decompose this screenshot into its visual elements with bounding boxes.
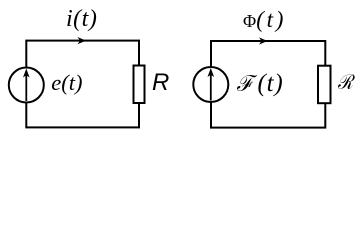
svg-text:Φ: Φ xyxy=(243,11,256,31)
svg-text:i(t): i(t) xyxy=(66,6,97,32)
svg-text:R: R xyxy=(152,69,169,96)
svg-text:e(t): e(t) xyxy=(51,70,82,95)
svg-text:(t): (t) xyxy=(258,70,284,97)
svg-text:(t): (t) xyxy=(256,7,286,32)
